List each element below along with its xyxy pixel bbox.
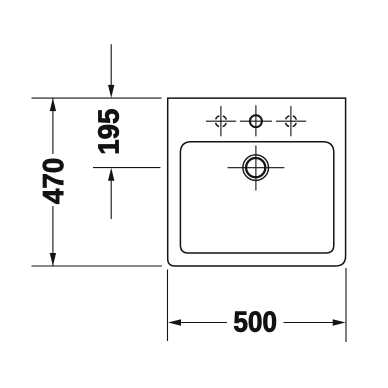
faucet hole left dashed circle [215, 116, 226, 127]
dim 195 arrow up onto drain axis [108, 168, 114, 181]
drain centerline vertical [255, 146, 257, 191]
dim 470 arrow down [50, 253, 56, 266]
dim 470 arrow up [50, 98, 56, 111]
dim 470 line lower segment [52, 206, 54, 266]
drain outer circle [243, 155, 269, 181]
extension line bottom (rim bottom edge) [32, 265, 163, 267]
drain inner circle [246, 158, 265, 177]
dim 500 arrow left [168, 319, 181, 325]
washbasin inner bowl [180, 142, 333, 253]
faucet hole right centerline vertical [290, 106, 292, 136]
faucet hole left centerline vertical [220, 106, 222, 136]
dim 195 arrow down onto rim top [108, 85, 114, 98]
extension line drain axis [93, 167, 160, 169]
dim 500 label [234, 311, 276, 331]
faucet hole right dashed circle [285, 116, 296, 127]
faucet hole middle centerline vertical [255, 105, 257, 136]
extension line left (rim left edge, for 500) [167, 270, 169, 342]
faucet hole middle centerline horizontal [240, 120, 272, 122]
dim 470 label [43, 159, 64, 204]
dim 500 line right segment [284, 322, 335, 324]
dim 195 label [98, 109, 119, 152]
faucet hole right centerline horizontal [276, 120, 306, 122]
extension line right (rim right edge, for 500) [345, 268, 347, 342]
dim 195 lower tail line [110, 179, 112, 219]
dim 195 upper tail line [110, 44, 112, 86]
faucet hole middle circle [250, 115, 262, 127]
dim 500 arrow right [333, 319, 346, 325]
faucet hole left (pre-punched, dashed) centerline horizontal [206, 120, 236, 122]
drain centerline horizontal [228, 167, 285, 169]
washbasin outer rim [168, 98, 346, 266]
extension line top (rim top edge) [32, 97, 162, 99]
dim 470 line upper segment [52, 98, 54, 154]
dim 500 line left segment [179, 322, 227, 324]
